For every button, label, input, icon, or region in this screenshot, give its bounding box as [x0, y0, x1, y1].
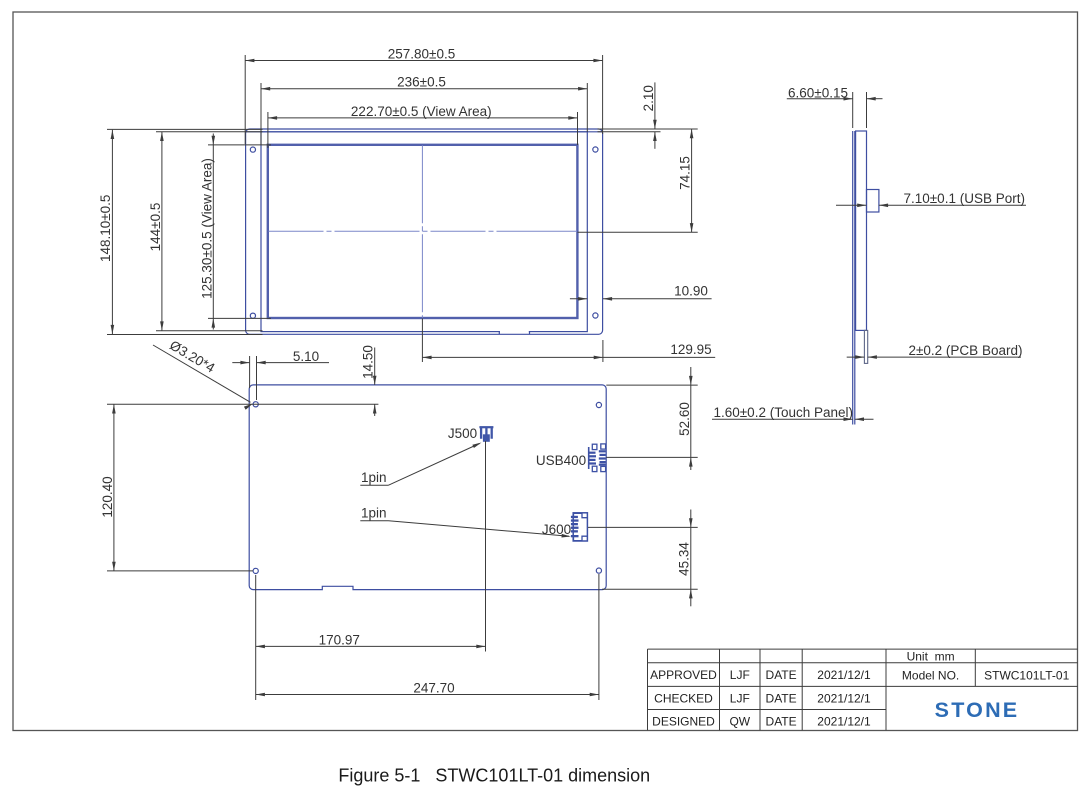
table row: approved: [650, 668, 1069, 683]
svg-text:247.70: 247.70: [413, 681, 454, 696]
dim 2 PCB board: [847, 343, 1023, 359]
svg-text:52.60: 52.60: [677, 402, 692, 436]
PCB board edge: [864, 330, 867, 363]
svg-text:Ø3.20*4: Ø3.20*4: [167, 338, 218, 376]
svg-text:257.80±0.5: 257.80±0.5: [388, 47, 455, 62]
dim 5.10: [232, 349, 329, 400]
mounting hole back BL: [253, 568, 258, 573]
svg-text:Unit mm: Unit mm: [907, 649, 955, 663]
bottom tab step: [500, 330, 529, 333]
svg-text:2.10: 2.10: [641, 85, 656, 111]
svg-text:Model NO.: Model NO.: [902, 669, 959, 683]
dim 257.80: [245, 47, 602, 145]
svg-text:129.95: 129.95: [670, 342, 711, 357]
dim 144: [148, 132, 263, 331]
mounting hole front TR: [593, 147, 598, 152]
svg-text:2±0.2 (PCB Board): 2±0.2 (PCB Board): [909, 343, 1023, 358]
svg-text:45.34: 45.34: [677, 542, 692, 576]
horizontal centerline: [269, 230, 578, 232]
glass rect 236x144: [261, 132, 587, 332]
svg-text:125.30±0.5 (View Area): 125.30±0.5 (View Area): [200, 158, 215, 299]
module body: [856, 131, 867, 330]
svg-text:DATE: DATE: [766, 692, 797, 706]
dim 7.10 USB port: [836, 191, 1026, 207]
dim 148.10: [98, 129, 263, 334]
svg-text:USB400: USB400: [536, 453, 586, 468]
svg-text:1.60±0.2 (Touch Panel): 1.60±0.2 (Touch Panel): [714, 405, 854, 420]
back outline with bottom notch: [249, 385, 606, 590]
svg-text:J600: J600: [542, 522, 571, 537]
svg-text:1pin: 1pin: [361, 506, 387, 521]
mounting hole back TR: [596, 402, 601, 407]
dim 170.97: [256, 575, 486, 700]
table outline: [648, 648, 1078, 650]
dim 247.70: [256, 574, 599, 700]
svg-text:2021/12/1: 2021/12/1: [817, 715, 871, 729]
svg-text:74.15: 74.15: [678, 156, 693, 190]
svg-text:STONE: STONE: [935, 698, 1020, 722]
svg-text:DATE: DATE: [766, 668, 797, 682]
svg-text:2021/12/1: 2021/12/1: [817, 668, 871, 682]
svg-text:LJF: LJF: [730, 692, 750, 706]
svg-text:14.50: 14.50: [361, 345, 376, 379]
connector J500: [479, 427, 493, 442]
svg-text:144±0.5: 144±0.5: [148, 203, 163, 252]
leader 1pin upper: [360, 441, 482, 485]
svg-text:QW: QW: [729, 715, 750, 729]
J500 extension line: [485, 441, 487, 652]
vertical centerline: [421, 145, 423, 318]
svg-text:222.70±0.5 (View Area): 222.70±0.5 (View Area): [351, 104, 492, 119]
svg-text:170.97: 170.97: [319, 633, 360, 648]
leader 1pin lower: [360, 506, 571, 539]
TITLE BLOCK: [648, 649, 1078, 730]
svg-text:120.40: 120.40: [100, 476, 115, 517]
dim 52.60: [606, 367, 697, 470]
svg-text:236±0.5: 236±0.5: [397, 75, 446, 90]
dim 125.30 view area: [200, 134, 272, 330]
svg-text:10.90: 10.90: [674, 284, 708, 299]
svg-text:LJF: LJF: [730, 668, 750, 682]
svg-text:DESIGNED: DESIGNED: [652, 715, 715, 729]
table row: designed: [652, 715, 871, 729]
mounting hole back TL: [253, 402, 258, 407]
svg-text:1pin: 1pin: [361, 470, 387, 485]
svg-text:J500: J500: [448, 426, 477, 441]
dim 129.95: [422, 319, 715, 363]
mounting hole front BL: [250, 313, 255, 318]
svg-text:6.60±0.15: 6.60±0.15: [788, 86, 848, 101]
view area rect: [268, 145, 578, 318]
mounting hole front BR: [593, 313, 598, 318]
bezel outline: [246, 129, 603, 334]
svg-text:STWC101LT-01: STWC101LT-01: [984, 669, 1069, 683]
J600 extension line: [588, 526, 698, 528]
dim 14.50: [361, 345, 377, 416]
svg-text:7.10±0.1 (USB Port): 7.10±0.1 (USB Port): [904, 191, 1025, 206]
dim 6.60: [787, 86, 883, 129]
dim 74.15: [578, 129, 698, 232]
dim 1.60 touch panel: [712, 405, 874, 421]
svg-text:APPROVED: APPROVED: [650, 668, 717, 682]
mounting hole front TL: [250, 147, 255, 152]
dim 236: [261, 75, 587, 145]
connector J600: [571, 513, 588, 541]
svg-text:Figure 5-1 STWC101LT-01 dime: Figure 5-1 STWC101LT-01 dimension: [338, 766, 650, 786]
USB400 extension line: [606, 456, 697, 458]
bezel lip line: [246, 131, 603, 133]
connector USB400: [589, 444, 606, 472]
svg-text:5.10: 5.10: [293, 349, 319, 364]
svg-text:2021/12/1: 2021/12/1: [817, 692, 871, 706]
svg-text:DATE: DATE: [766, 715, 797, 729]
dim 120.40: [100, 404, 378, 571]
dim 2.10: [598, 82, 698, 148]
dim 222.70 view area: [268, 104, 578, 148]
touch panel sheet: [852, 131, 854, 425]
svg-text:CHECKED: CHECKED: [654, 692, 713, 706]
dim 10.90: [570, 284, 712, 301]
svg-text:148.10±0.5: 148.10±0.5: [98, 195, 113, 262]
table row: checked: [654, 692, 871, 706]
dim 45.34: [602, 510, 698, 607]
leader dia 3.20x4: [153, 338, 254, 410]
mounting hole back BR: [596, 568, 601, 573]
USB port bump: [867, 190, 879, 213]
